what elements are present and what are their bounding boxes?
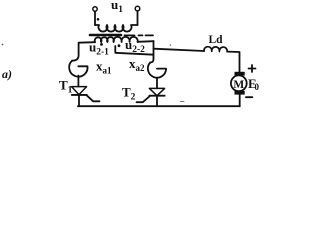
polarity dot u2-2 [118,44,121,47]
polarity dot u1 [97,18,100,21]
motor M bottom brush [235,91,245,95]
label - (motor negative) [246,96,252,98]
reactor xa1 (hook curl) [72,52,78,61]
wire primary right lead [137,11,139,25]
svg-text:M: M [233,79,244,91]
wire load run to Ld [154,49,205,51]
inductor Ld [204,47,227,52]
label + (motor positive) [249,65,256,72]
wire T2 cathode to bottom rail [156,96,158,106]
wire u2-2 right end top run [138,40,154,43]
wire primary left lead [94,12,96,25]
terminal P1 (primary left input terminal) [93,7,97,11]
wire Ld to right rail [227,52,239,72]
thyristor T1 gate lead [87,95,100,101]
thyristor T2 cathode bar [149,95,164,97]
winding u1 (transformer primary) [95,25,138,32]
transformer core (solid bar) [90,34,121,37]
reactor xa2 (hook curl) [150,57,153,62]
thyristor T1 cathode bar [72,94,87,96]
wire node A vertical (u2-2 end down to tap line) [153,41,155,57]
wire motor to bottom rail [239,95,241,107]
terminal P2 (primary right input terminal) [135,6,140,11]
speck artifact mid wire [181,101,185,103]
wire center-tap run under u2-2 label [115,46,153,55]
reactor xa2 (circle arc) [148,62,166,77]
speck artifact near load wire [170,44,172,46]
transformer core (dash-dot extension) [125,34,154,36]
thyristor T2 (triangle) [149,88,164,95]
wire secondary left entry [79,42,95,52]
motor M body [231,75,247,91]
motor M top brush [235,72,245,76]
wire bottom rail [78,105,240,107]
wire xa1 to T1 [77,76,79,87]
reactor xa1 (circle arc) [69,61,87,77]
svg-text:0: 0 [255,82,260,92]
wire xa2 to T2 [156,78,158,89]
thyristor T1 (triangle) [72,87,87,95]
polarity dot u2-1 [100,43,103,46]
speck artifact left edge [2,44,4,46]
svg-text:a): a) [2,67,12,81]
thyristor T2 gate lead [137,96,150,102]
winding u2-2 (secondary half 2) [114,37,138,42]
winding u2-1 (secondary half 1) [95,37,114,42]
wire T1 cathode to bottom rail [78,95,80,106]
svg-text:Ld: Ld [209,34,224,46]
